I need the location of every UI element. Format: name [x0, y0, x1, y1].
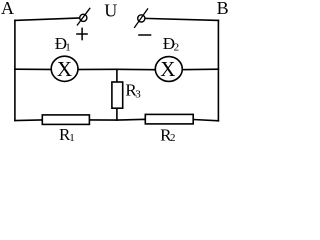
- svg-text:X: X: [57, 57, 72, 81]
- svg-text:3: 3: [135, 89, 141, 101]
- svg-text:A: A: [1, 0, 14, 18]
- svg-text:1: 1: [69, 132, 75, 144]
- svg-text:B: B: [217, 0, 229, 18]
- svg-text:1: 1: [65, 41, 71, 53]
- svg-text:U: U: [104, 0, 117, 20]
- svg-text:X: X: [160, 57, 175, 81]
- svg-text:2: 2: [174, 41, 180, 53]
- svg-text:2: 2: [170, 132, 176, 144]
